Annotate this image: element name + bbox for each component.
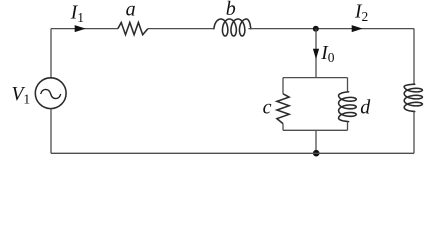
inductor b [214,19,251,36]
resistor c [277,94,289,124]
wire: middle stem from box bottom to bottom junction [315,130,317,153]
wire: middle stem from top junction down to parallel box [315,29,317,78]
wire: top-right horizontal from inductor b to right corner [248,28,414,30]
source V1 [35,78,66,109]
junction node (top) [313,26,319,32]
wire: parallel box left branch (upper) [282,78,284,94]
svg-text:b: b [226,0,236,20]
resistor a [118,23,148,35]
svg-text:I1: I1 [70,3,84,25]
svg-text:I2: I2 [354,2,368,24]
wire: right vertical from top corner to right inductor [413,29,415,84]
wire: parallel box right branch (upper) [347,78,349,92]
wire: parallel box bottom bar [283,129,348,131]
current arrow I2 [352,25,363,32]
wire: left vertical from source down to bottom corner [50,109,52,154]
wire: parallel box top bar [283,77,348,79]
wire: top-left horizontal from source corner to resistor a [51,28,118,30]
wire: parallel box right branch (lower) [347,122,349,131]
svg-text:a: a [126,0,136,20]
inductor d [339,92,357,122]
junction node (bottom) [313,150,320,157]
wire: parallel box left branch (lower) [282,124,284,131]
current arrow I0 [313,49,319,59]
svg-text:d: d [360,97,371,119]
svg-text:c: c [263,97,272,119]
svg-text:I0: I0 [320,43,335,65]
wire: bottom horizontal [51,152,414,154]
current arrow I1 [75,25,86,32]
wire: right vertical from inductor to bottom corner [413,112,415,154]
svg-text:V1: V1 [12,84,31,106]
wire: between resistor a and inductor b [148,28,213,30]
inductor (right branch, unlabeled) [404,84,422,111]
wire: left vertical from top corner down to source [50,29,52,78]
